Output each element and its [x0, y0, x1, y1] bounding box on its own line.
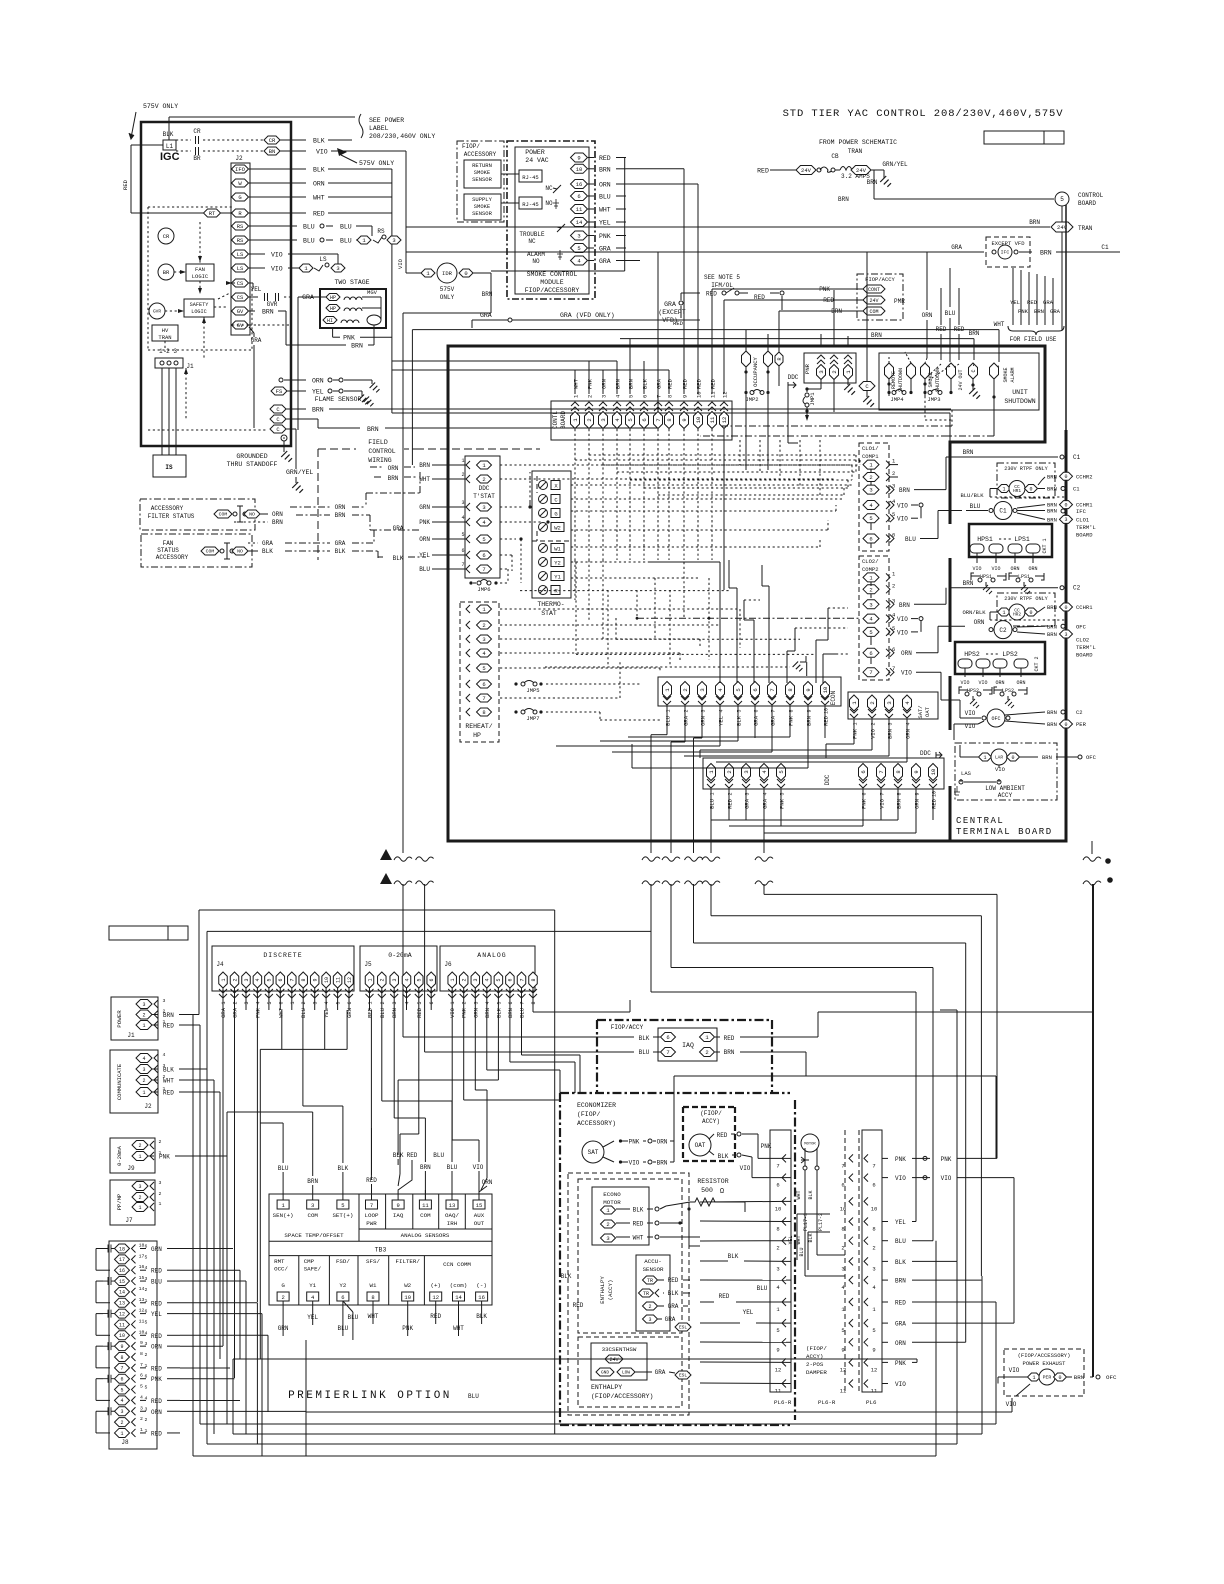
svg-text:BRN: BRN — [335, 512, 346, 519]
svg-text:GRA: GRA — [664, 301, 676, 308]
J5 BLU drop — [381, 1010, 383, 1101]
svg-text:OFC: OFC — [991, 716, 1000, 722]
HPS/LPS pin — [1026, 544, 1040, 553]
J4 pin 12 — [345, 972, 354, 988]
valve HP 1 — [326, 294, 340, 301]
svg-text:6: 6 — [482, 552, 485, 559]
svg-text:JMP7: JMP7 — [526, 715, 539, 722]
svg-text:9: 9 — [313, 978, 319, 981]
plug LS 3 — [331, 264, 345, 272]
J4 pin 7 — [288, 972, 297, 988]
svg-text:3: 3 — [482, 504, 485, 511]
econ wire 1 — [666, 731, 668, 735]
svg-text:REMOTE: REMOTE — [891, 371, 897, 389]
REHEAT pin 7 — [477, 694, 492, 702]
svg-text:24V: 24V — [801, 167, 812, 174]
svg-text:BOARD: BOARD — [1078, 200, 1096, 207]
terminal ESL — [675, 1323, 691, 1331]
svg-text:PNK: PNK — [861, 798, 868, 809]
svg-text:MOTOR: MOTOR — [603, 1199, 621, 1206]
svg-text:SPACE TEMP/OFFSET: SPACE TEMP/OFFSET — [284, 1232, 344, 1239]
svg-text:J1: J1 — [127, 1032, 135, 1039]
svg-text:4: 4 — [485, 1001, 491, 1004]
terminal NO fan — [232, 547, 248, 555]
svg-text:BRN: BRN — [507, 1008, 514, 1018]
svg-text:6: 6 — [641, 418, 648, 421]
svg-text:PNK: PNK — [852, 728, 859, 739]
mesh row a — [575, 459, 860, 461]
J5 pin 1 — [365, 972, 374, 988]
svg-text:SAT/: SAT/ — [917, 705, 924, 718]
svg-text:PNK: PNK — [419, 519, 430, 526]
svg-text:BLU: BLU — [303, 224, 315, 231]
svg-text:5: 5 — [145, 1319, 148, 1325]
svg-text:230V RTPF ONLY: 230V RTPF ONLY — [1004, 596, 1048, 602]
svg-text:6: 6 — [429, 978, 435, 981]
svg-text:2: 2 — [831, 370, 838, 373]
J8 filter 9 — [103, 1342, 115, 1350]
svg-text:RED: RED — [573, 1302, 584, 1309]
J4 pin 8 — [299, 972, 308, 988]
svg-text:G: G — [238, 194, 241, 201]
svg-text:VIO: VIO — [901, 670, 912, 677]
svg-text:ORN: ORN — [1010, 566, 1019, 572]
J6 VIO drop — [451, 1010, 453, 1140]
svg-text:RED: RED — [823, 715, 830, 726]
HPS2/LPS2 pin — [1014, 659, 1028, 668]
svg-text:3: 3 — [473, 1001, 479, 1004]
svg-text:2: 2 — [138, 1195, 141, 1201]
ddc bus 1 — [711, 819, 898, 821]
board edge above bottom — [949, 786, 952, 841]
svg-text:BRN: BRN — [969, 330, 980, 337]
svg-text:CR: CR — [193, 128, 201, 135]
terminal C board — [859, 382, 875, 391]
svg-text:2: 2 — [892, 582, 895, 589]
long wire left A lower — [402, 884, 404, 1037]
clo1 internal — [870, 469, 872, 473]
TB3 col divider — [438, 1194, 440, 1229]
TB3 bottom divider — [423, 1256, 425, 1305]
svg-text:10: 10 — [695, 417, 702, 424]
CLO1 pin 5 — [863, 514, 879, 523]
dotted drop pin — [602, 520, 604, 560]
svg-text:5: 5 — [461, 532, 464, 538]
ACCU pin 2 — [643, 1302, 658, 1310]
svg-text:(com): (com) — [450, 1282, 467, 1289]
svg-text:GRN: GRN — [419, 504, 430, 511]
wire up d — [753, 620, 755, 683]
J2 pin LS — [232, 264, 249, 272]
svg-text:4: 4 — [255, 978, 261, 981]
svg-text:VIO: VIO — [897, 503, 908, 510]
stub to CONTL pin — [588, 361, 590, 394]
svg-text:ORN: ORN — [905, 729, 912, 739]
svg-text:3: 3 — [701, 709, 707, 712]
svg-text:PNK: PNK — [895, 1360, 906, 1367]
CLO2 pin 3 — [863, 600, 879, 609]
svg-text:ORN: ORN — [914, 799, 921, 809]
svg-text:BR: BR — [193, 155, 201, 162]
svg-text:8: 8 — [531, 1001, 537, 1004]
wire to long drop — [403, 312, 491, 314]
J8 connector box — [109, 1241, 157, 1449]
left drop 3 — [232, 1359, 234, 1434]
svg-text:3: 3 — [869, 601, 872, 608]
svg-text:R: R — [777, 357, 783, 360]
ACCU pin 3 — [643, 1315, 658, 1323]
terminal CCHR1 — [1060, 501, 1073, 509]
J6 pin 7 — [517, 972, 526, 988]
wire BRN C1 — [951, 456, 1058, 458]
IAQ pin 7 — [661, 1048, 676, 1057]
smoke ORN wire to CONTL pin10 — [626, 183, 698, 185]
svg-text:BLU: BLU — [757, 1285, 768, 1292]
svg-text:GRN: GRN — [151, 1246, 162, 1253]
ECON pin 2 — [681, 682, 690, 699]
svg-text:LOGIC: LOGIC — [192, 273, 209, 280]
svg-text:5: 5 — [482, 665, 485, 672]
svg-text:1: 1 — [450, 978, 456, 981]
PL6-R2 pin 11 — [849, 1380, 853, 1388]
SAT/OAT pin 2 — [868, 695, 877, 711]
svg-text:7: 7 — [655, 418, 662, 421]
J4 pin 1 — [219, 972, 228, 988]
econ pin9 wire to gnd — [806, 662, 808, 676]
dotted drop pin — [711, 520, 713, 560]
svg-text:SENSOR: SENSOR — [472, 210, 493, 217]
svg-text:BLK: BLK — [262, 548, 273, 555]
svg-text:1: 1 — [450, 1001, 456, 1004]
svg-text:C1: C1 — [1073, 454, 1081, 461]
svg-text:PREMIERLINK OPTION: PREMIERLINK OPTION — [288, 1390, 452, 1402]
svg-text:STAT: STAT — [541, 610, 557, 617]
svg-text:9: 9 — [682, 395, 689, 398]
triangle marker 1 — [380, 849, 392, 860]
wire from PER down — [1016, 1384, 1030, 1396]
break 4a — [1083, 857, 1101, 861]
svg-text:5: 5 — [120, 1387, 123, 1393]
svg-text:PNK: PNK — [1018, 308, 1029, 315]
svg-text:5: 5 — [892, 511, 895, 518]
svg-text:RED: RED — [719, 1293, 730, 1300]
grounded standoff — [281, 435, 287, 441]
svg-text:10: 10 — [930, 769, 937, 776]
svg-text:14: 14 — [119, 1290, 125, 1296]
relay GVR — [149, 303, 165, 319]
svg-text:6: 6 — [860, 770, 867, 773]
svg-text:TERMINAL BOARD: TERMINAL BOARD — [956, 827, 1053, 837]
PL6 pin 2 — [864, 1237, 868, 1245]
svg-text:0: 0 — [1029, 486, 1032, 492]
smoke BRN wire to CONTL pin9 — [626, 168, 684, 170]
svg-text:8: 8 — [841, 1226, 844, 1233]
relay LAR — [991, 749, 1007, 765]
svg-text:7: 7 — [771, 709, 777, 712]
svg-text:6: 6 — [752, 688, 759, 691]
svg-text:BLU: BLU — [905, 536, 916, 543]
svg-text:ORN: ORN — [700, 716, 707, 726]
svg-text:208/230,460V ONLY: 208/230,460V ONLY — [369, 133, 435, 140]
SMOKE CONTROL MODULE outer — [507, 141, 595, 299]
svg-text:3: 3 — [743, 770, 750, 773]
CONTL BOARD connector strip — [551, 401, 732, 440]
dotted drop pin — [668, 520, 670, 560]
svg-text:3: 3 — [140, 1405, 143, 1411]
svg-text:10: 10 — [696, 391, 703, 398]
J4 pin 2 — [230, 972, 239, 988]
svg-text:BLK: BLK — [313, 167, 325, 174]
svg-text:RED: RED — [724, 1035, 735, 1042]
SAFETY LOGIC box — [184, 299, 214, 317]
BLU to TB3 13 — [382, 1100, 452, 1102]
svg-text:24V: 24V — [869, 298, 878, 304]
svg-text:JMP2: JMP2 — [745, 396, 758, 403]
svg-text:10: 10 — [119, 1333, 125, 1339]
long wire left A — [402, 313, 404, 853]
svg-text:BRN: BRN — [1047, 516, 1057, 523]
mesh to CLO2 pin6 — [836, 653, 848, 655]
CONTL pin 2 — [585, 412, 594, 429]
svg-text:5: 5 — [145, 1385, 148, 1391]
smoke pin 14 — [571, 218, 588, 227]
svg-text:0: 0 — [1011, 755, 1014, 761]
mesh dashdot row — [637, 617, 860, 619]
t3 wire — [312, 1112, 314, 1128]
terminal ESL 2 — [675, 1371, 691, 1379]
svg-text:2: 2 — [482, 622, 485, 629]
valve wire down — [373, 325, 375, 345]
svg-text:ANALOG SENSORS: ANALOG SENSORS — [401, 1232, 450, 1239]
PL6-R1 pin 7 — [782, 1154, 786, 1162]
J4 pin 6 — [276, 972, 285, 988]
drop to bus 894 — [763, 884, 765, 894]
svg-text:13: 13 — [119, 1301, 125, 1307]
terminal CONT — [863, 285, 885, 293]
dotted drop pin — [588, 520, 590, 560]
OCCUPANCY pin 1 — [742, 351, 751, 367]
svg-text:ALARM: ALARM — [1010, 367, 1016, 382]
svg-text:1: 1 — [140, 1427, 143, 1433]
svg-text:BLU: BLU — [468, 1393, 479, 1400]
svg-text:12: 12 — [347, 977, 353, 983]
stub to CONTL pin — [643, 361, 645, 394]
J5 BRN drop — [393, 1010, 395, 1118]
PL6-R2 pin 9 — [849, 1338, 853, 1346]
svg-text:BRN: BRN — [1047, 486, 1057, 493]
svg-text:BLU: BLU — [599, 194, 611, 201]
svg-text:2: 2 — [462, 978, 468, 981]
svg-text:SAT: SAT — [588, 1149, 599, 1156]
GRA drop 2 — [234, 1010, 236, 1378]
svg-text:7: 7 — [872, 1162, 875, 1169]
PL6-R2 pin 7 — [849, 1154, 853, 1162]
svg-text:LS: LS — [319, 256, 327, 263]
sensor OAT — [689, 1134, 711, 1156]
mesh to CLO2 pin5 — [795, 627, 848, 629]
svg-text:Ω: Ω — [720, 1188, 724, 1196]
wire WHT motor — [804, 1148, 806, 1276]
svg-text:0-20mA: 0-20mA — [116, 1145, 123, 1166]
svg-text:THERMO-: THERMO- — [537, 601, 564, 608]
J7 PP/MP box — [110, 1180, 155, 1225]
svg-text:MODULE: MODULE — [540, 279, 564, 286]
PL6-R1 pin 9 — [782, 1338, 786, 1346]
svg-text:BLU: BLU — [151, 1279, 162, 1286]
svg-text:6: 6 — [508, 978, 514, 981]
svg-text:Y1: Y1 — [554, 574, 561, 581]
svg-text:ACCY): ACCY) — [702, 1118, 720, 1125]
svg-text:YEL: YEL — [895, 1219, 906, 1226]
svg-text:BRN: BRN — [1040, 250, 1052, 257]
svg-text:W2: W2 — [404, 1282, 411, 1289]
svg-text:6: 6 — [892, 532, 895, 539]
wire across 330 — [412, 329, 999, 331]
svg-text:DDC: DDC — [479, 485, 490, 492]
REHEAT/HP connector box — [460, 602, 499, 742]
svg-text:PNR: PNR — [804, 363, 811, 374]
svg-text:RED: RED — [710, 378, 717, 389]
svg-text:4: 4 — [485, 978, 491, 981]
TB3 bottom divider — [388, 1256, 390, 1305]
svg-text:0: 0 — [464, 270, 467, 277]
svg-text:CCHR2: CCHR2 — [1076, 474, 1093, 481]
svg-text:VIO: VIO — [473, 1164, 484, 1171]
svg-text:PL17-1: PL17-1 — [803, 1213, 809, 1231]
svg-text:GRA: GRA — [762, 798, 769, 809]
econ pin4 wire up — [719, 562, 721, 683]
J2 pin RS — [232, 222, 249, 230]
JMP6 jumper — [473, 582, 489, 584]
svg-text:NO: NO — [237, 549, 243, 555]
TB3 bottom divider — [328, 1256, 330, 1305]
svg-text:2: 2 — [120, 1420, 123, 1426]
svg-text:5: 5 — [737, 709, 743, 712]
bundle wire A to CONTL pins — [392, 360, 617, 362]
svg-text:0: 0 — [1064, 474, 1067, 480]
svg-text:RED: RED — [754, 294, 765, 301]
svg-text:ECONOMIZER: ECONOMIZER — [577, 1102, 616, 1109]
svg-text:ORN: ORN — [974, 619, 985, 626]
FAN STATUS ACCESSORY box — [141, 534, 252, 567]
HPS2/LPS2 pin — [993, 659, 1007, 668]
svg-text:YEL: YEL — [743, 1309, 754, 1316]
svg-text:2: 2 — [145, 1417, 148, 1423]
GV dashed — [249, 324, 258, 326]
svg-text:6: 6 — [869, 650, 872, 657]
svg-text:J1: J1 — [186, 363, 194, 370]
REHEAT pin 3 — [477, 635, 492, 643]
stub to CONTL pin — [574, 370, 576, 394]
svg-text:2: 2 — [869, 701, 876, 704]
svg-text:BRN: BRN — [871, 332, 882, 339]
svg-text:575V ONLY: 575V ONLY — [143, 103, 178, 110]
J6 pin 5 — [494, 972, 503, 988]
svg-text:6: 6 — [666, 1034, 669, 1041]
break 1a — [394, 857, 412, 861]
break 2b — [642, 881, 660, 885]
TB3 terminal 3 — [307, 1200, 319, 1209]
svg-text:HP: HP — [473, 732, 481, 739]
svg-text:TROUBLE: TROUBLE — [519, 231, 545, 238]
svg-text:5: 5 — [869, 629, 872, 636]
TB3 terminal 7 — [366, 1200, 378, 1209]
wire across 339 — [620, 338, 974, 340]
svg-text:FOR FIELD USE: FOR FIELD USE — [1010, 336, 1057, 343]
J6 ORN drop — [474, 1010, 476, 1090]
plug IDR 1 — [421, 269, 435, 277]
svg-text:7: 7 — [370, 1202, 373, 1209]
JMP2 jumper — [753, 390, 761, 393]
svg-text:BRN: BRN — [367, 426, 379, 433]
sensor SAT — [582, 1141, 604, 1163]
arrowhead — [337, 148, 347, 156]
svg-text:FIELD: FIELD — [368, 439, 388, 446]
RJ-45 box 2 — [519, 197, 542, 209]
PL6 pin 5 — [864, 1319, 868, 1327]
CLO1 pin 6 — [863, 534, 879, 543]
svg-text:PL6-R: PL6-R — [774, 1399, 792, 1406]
svg-text:TWO STAGE: TWO STAGE — [334, 279, 369, 286]
svg-text:5: 5 — [267, 978, 273, 981]
PL6-R2 pin 3 — [849, 1257, 853, 1265]
svg-text:BLK: BLK — [335, 548, 346, 555]
svg-text:RED: RED — [936, 326, 947, 333]
terminal COM — [863, 307, 885, 315]
svg-text:0: 0 — [1064, 722, 1067, 728]
J4 DISCRETE box — [212, 946, 354, 991]
svg-text:TERM'L: TERM'L — [1076, 644, 1096, 651]
thermostat screw W2 — [539, 523, 548, 532]
svg-text:VIO: VIO — [978, 680, 987, 686]
svg-text:12: 12 — [119, 1311, 125, 1317]
HPS2/LPS2 pin — [958, 659, 972, 668]
mesh col l — [799, 440, 801, 488]
svg-text:J9: J9 — [127, 1165, 135, 1172]
PL6-R1 pin 4 — [782, 1276, 786, 1284]
svg-text:3: 3 — [336, 265, 339, 272]
bottom bus 1424 — [200, 1423, 996, 1425]
TB3 terminal 11 — [419, 1200, 431, 1209]
HPS/LPS pin — [989, 544, 1003, 553]
PL6-R1 pin 5 — [782, 1319, 786, 1327]
svg-text:MOTOR: MOTOR — [804, 1142, 816, 1146]
mesh dotted 3 — [500, 506, 524, 508]
svg-text:RED: RED — [163, 1090, 174, 1097]
ground above ECON — [793, 662, 803, 672]
svg-text:8: 8 — [140, 1351, 143, 1357]
svg-text:11: 11 — [709, 416, 716, 423]
svg-text:2: 2 — [871, 722, 877, 725]
IAQ FIOP dashed top — [597, 1019, 772, 1021]
svg-text:LPS2: LPS2 — [1002, 651, 1018, 658]
svg-text:3: 3 — [776, 1265, 779, 1272]
svg-text:FIOP/: FIOP/ — [462, 143, 480, 150]
svg-text:DISCRETE: DISCRETE — [263, 952, 302, 959]
remote pin 1 — [885, 363, 894, 379]
DDC pin 1 — [707, 764, 716, 781]
svg-text:CONTROL: CONTROL — [1078, 192, 1104, 199]
svg-text:10: 10 — [404, 1294, 411, 1301]
CLO2 pin 6 — [863, 648, 879, 657]
SAT/OAT pin 1 — [850, 695, 859, 711]
svg-text:WHT: WHT — [277, 1007, 284, 1018]
PL6 pin 6 — [864, 1174, 868, 1182]
svg-text:12: 12 — [721, 417, 728, 424]
svg-text:7: 7 — [880, 792, 886, 795]
svg-text:4: 4 — [142, 1056, 145, 1062]
svg-text:BRN: BRN — [1047, 508, 1057, 515]
